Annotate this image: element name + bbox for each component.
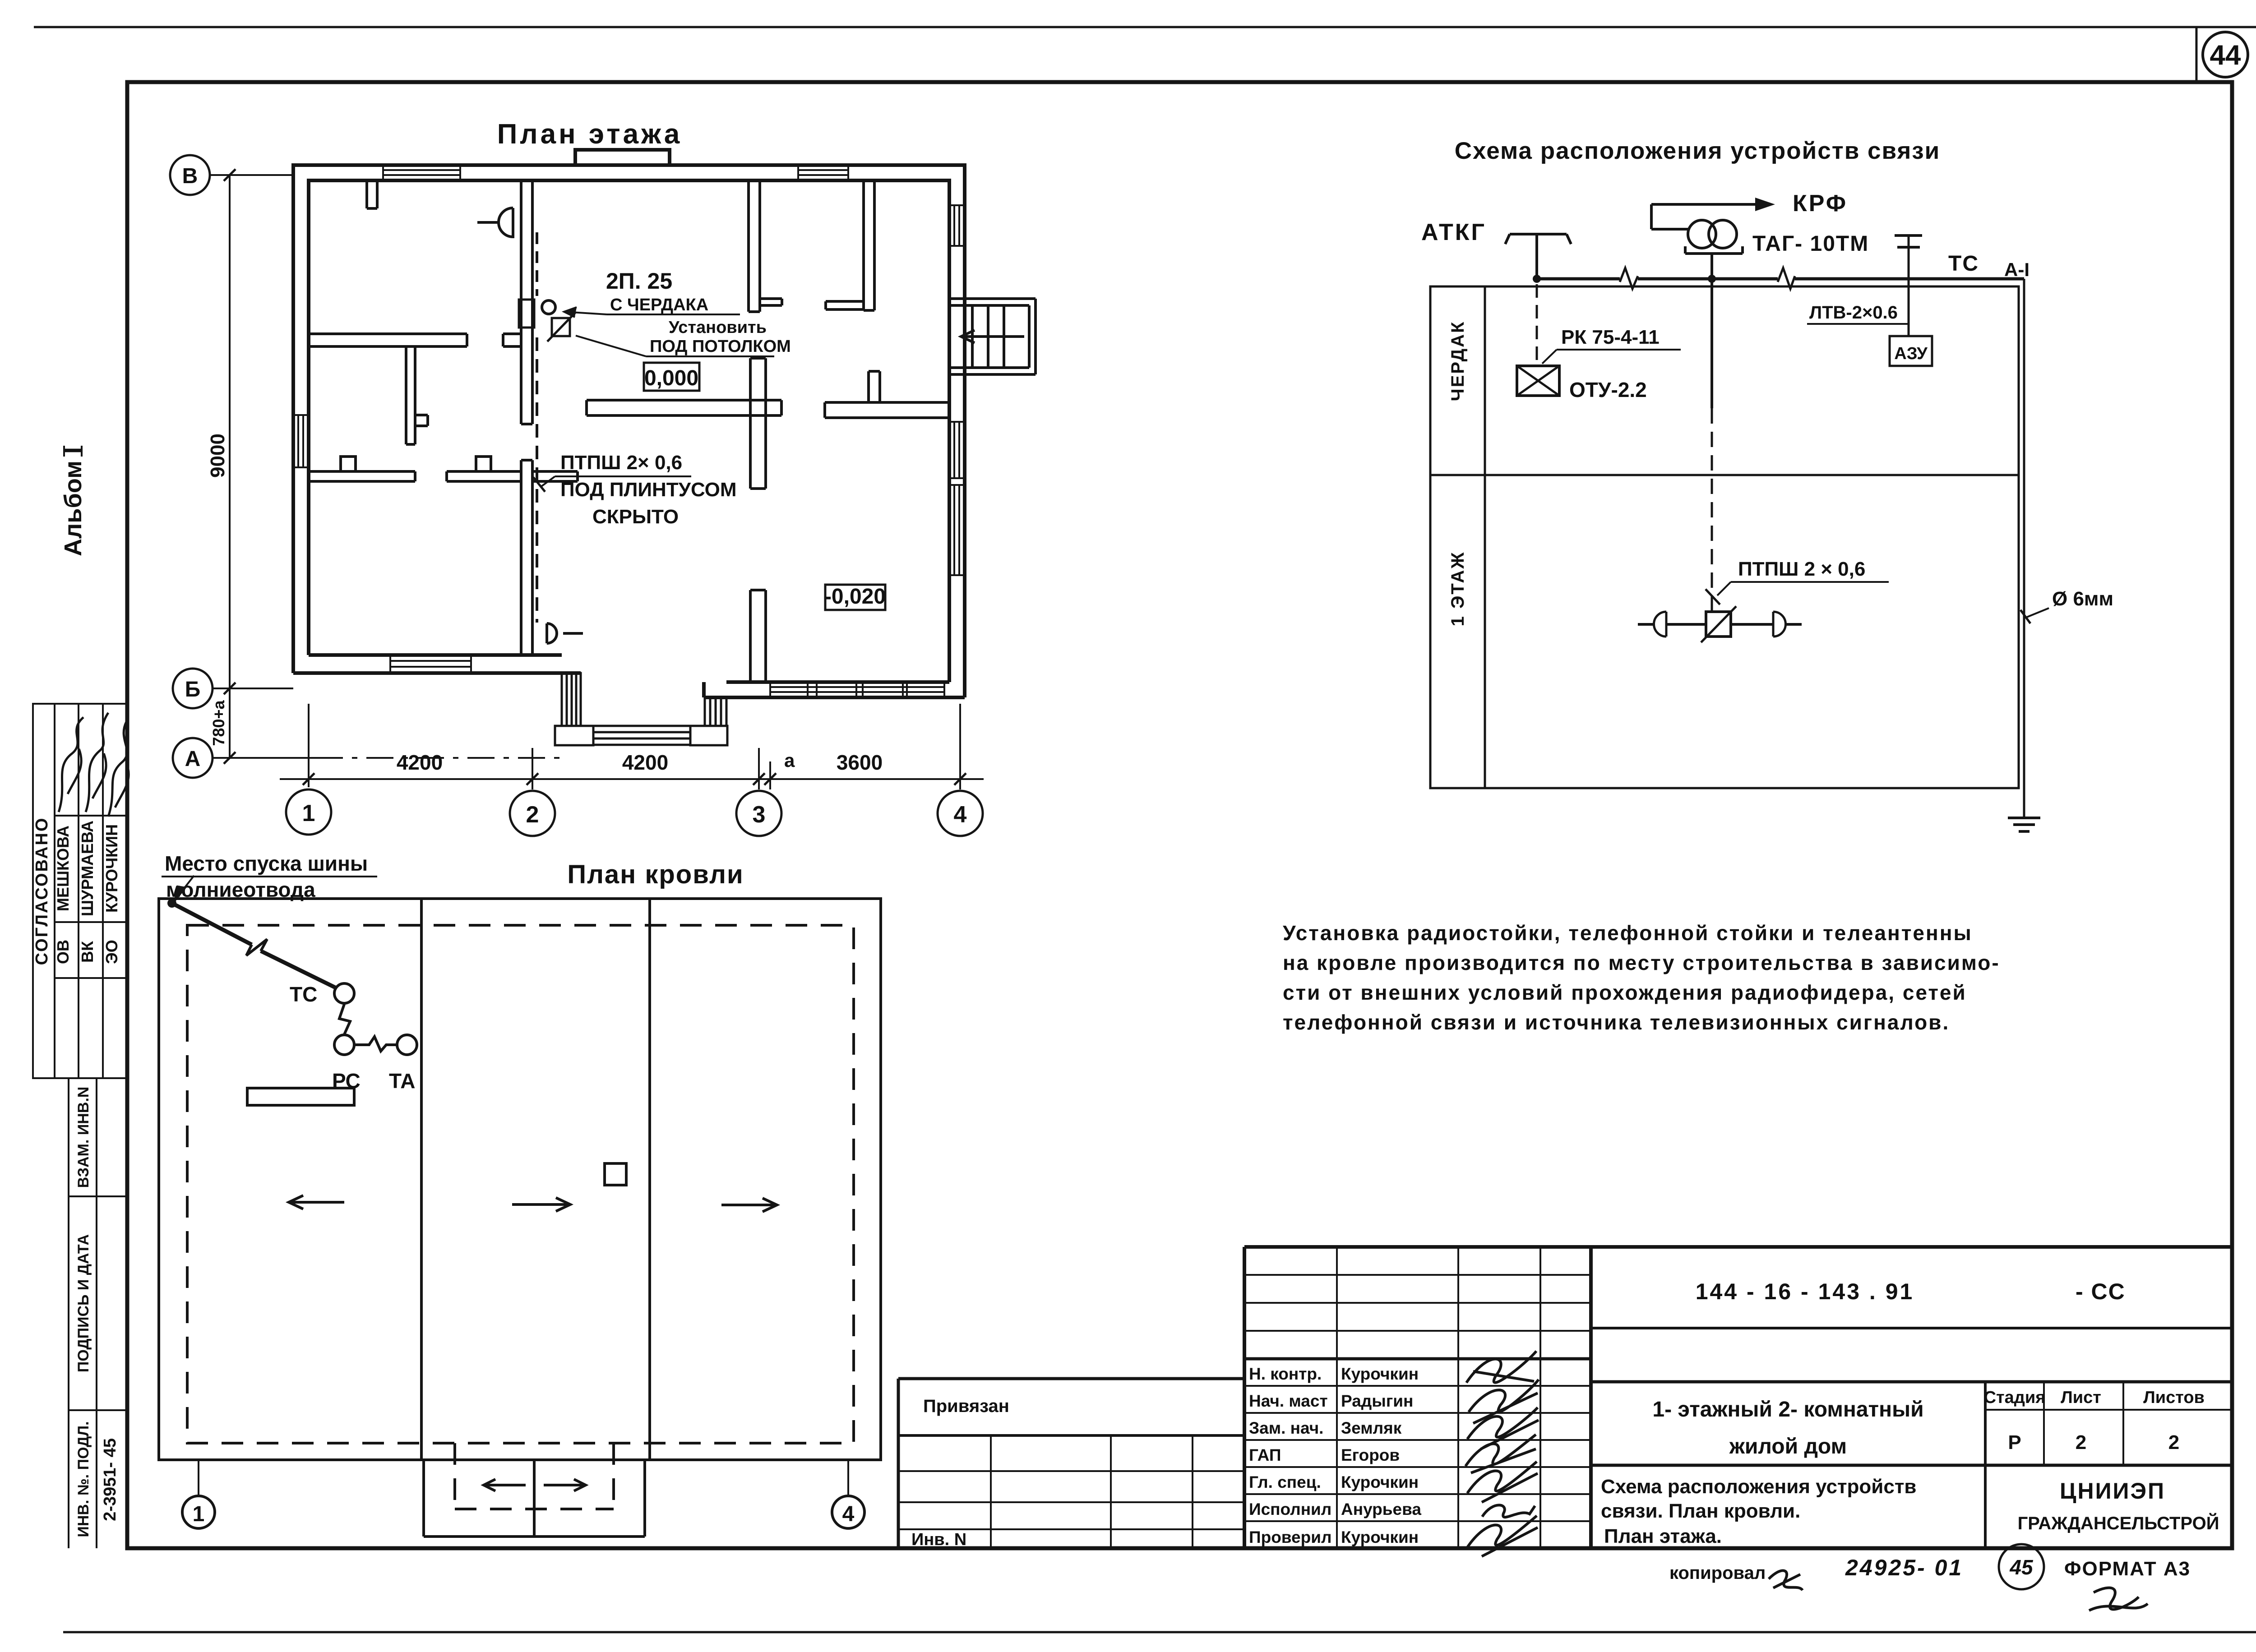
svg-text:ТА: ТА <box>389 1069 415 1093</box>
svg-text:2П. 25: 2П. 25 <box>606 268 672 294</box>
svg-text:ВК: ВК <box>78 941 97 963</box>
svg-text:Схема расположения устройств: Схема расположения устройств <box>1601 1476 1916 1498</box>
svg-text:ПОДПИСЬ И ДАТА: ПОДПИСЬ И ДАТА <box>75 1234 92 1372</box>
svg-text:3600: 3600 <box>837 751 883 774</box>
svg-text:4: 4 <box>954 802 967 828</box>
svg-text:Нач. маст: Нач. маст <box>1249 1392 1328 1410</box>
svg-text:2-3951- 45: 2-3951- 45 <box>101 1438 120 1521</box>
svg-text:ПОД ПОТОЛКОМ: ПОД ПОТОЛКОМ <box>650 337 791 356</box>
svg-text:Курочкин: Курочкин <box>1341 1365 1419 1383</box>
svg-text:45: 45 <box>2009 1555 2034 1579</box>
svg-text:СКРЫТО: СКРЫТО <box>592 506 679 528</box>
svg-text:Исполнил: Исполнил <box>1249 1500 1331 1518</box>
svg-text:ОВ: ОВ <box>54 940 72 964</box>
svg-text:Зам. нач.: Зам. нач. <box>1249 1419 1323 1437</box>
svg-text:4200: 4200 <box>622 751 668 774</box>
svg-text:2: 2 <box>2168 1431 2179 1454</box>
svg-text:РК 75-4-11: РК 75-4-11 <box>1561 326 1660 348</box>
svg-text:44: 44 <box>2210 40 2241 71</box>
svg-text:Схема расположения устройств с: Схема расположения устройств связи <box>1455 138 1940 164</box>
svg-text:на кровле производится по мест: на кровле производится по месту строител… <box>1283 951 2000 974</box>
svg-text:3: 3 <box>753 802 766 828</box>
svg-text:АЗУ: АЗУ <box>1894 344 1928 363</box>
svg-text:Курочкин: Курочкин <box>1341 1528 1419 1546</box>
svg-text:сти от внешних условий прохожд: сти от внешних условий прохождения радио… <box>1283 981 1967 1004</box>
svg-text:1- этажный 2- комнатный: 1- этажный 2- комнатный <box>1652 1398 1923 1421</box>
svg-text:Земляк: Земляк <box>1341 1419 1402 1437</box>
svg-text:2: 2 <box>2076 1431 2086 1454</box>
svg-text:Лист: Лист <box>2061 1388 2101 1407</box>
svg-text:Н. контр.: Н. контр. <box>1249 1365 1322 1383</box>
svg-text:ВЗАМ. ИНВ.N: ВЗАМ. ИНВ.N <box>75 1087 92 1188</box>
svg-text:копировал: копировал <box>1669 1563 1766 1583</box>
svg-text:ГРАЖДАНСЕЛЬСТРОЙ: ГРАЖДАНСЕЛЬСТРОЙ <box>2018 1513 2219 1533</box>
svg-text:1: 1 <box>193 1502 205 1526</box>
svg-text:жилой дом: жилой дом <box>1729 1435 1847 1458</box>
svg-text:ЦНИИЭП: ЦНИИЭП <box>2060 1478 2165 1504</box>
svg-text:ШУРМАЕВА: ШУРМАЕВА <box>78 821 97 916</box>
svg-text:4: 4 <box>842 1502 855 1526</box>
svg-text:1 ЭТАЖ: 1 ЭТАЖ <box>1448 551 1468 627</box>
svg-text:ЧЕРДАК: ЧЕРДАК <box>1448 321 1468 401</box>
svg-text:С ЧЕРДАКА: С ЧЕРДАКА <box>610 295 708 314</box>
svg-text:Листов: Листов <box>2143 1388 2205 1407</box>
svg-text:ОТУ-2.2: ОТУ-2.2 <box>1569 378 1647 401</box>
svg-text:24925- 01: 24925- 01 <box>1845 1555 1963 1580</box>
svg-text:9000: 9000 <box>207 434 229 478</box>
svg-text:ПТПШ 2 × 0,6: ПТПШ 2 × 0,6 <box>1738 558 1865 580</box>
svg-text:ЛТВ-2×0.6: ЛТВ-2×0.6 <box>1809 303 1898 323</box>
svg-text:Стадия: Стадия <box>1984 1388 2046 1407</box>
svg-text:ТС: ТС <box>290 983 317 1006</box>
svg-text:Курочкин: Курочкин <box>1341 1473 1419 1491</box>
svg-text:4200: 4200 <box>397 751 443 774</box>
svg-text:- СС: - СС <box>2076 1279 2126 1304</box>
svg-text:Привязан: Привязан <box>923 1396 1009 1416</box>
svg-text:МЕШКОВА: МЕШКОВА <box>54 826 72 911</box>
svg-text:1: 1 <box>302 800 315 826</box>
svg-text:АТКГ: АТКГ <box>1421 219 1486 245</box>
svg-text:связи. План кровли.: связи. План кровли. <box>1601 1500 1800 1522</box>
svg-text:2: 2 <box>526 802 539 828</box>
svg-text:РС: РС <box>332 1069 361 1093</box>
svg-text:Б: Б <box>185 678 201 701</box>
svg-text:Место спуска шины: Место спуска шины <box>165 852 368 875</box>
svg-text:Установить: Установить <box>669 318 767 337</box>
svg-text:План этажа.: План этажа. <box>1604 1525 1722 1547</box>
svg-text:-0,020: -0,020 <box>824 585 886 609</box>
svg-text:СОГЛАСОВАНО: СОГЛАСОВАНО <box>32 817 51 965</box>
svg-text:Ø 6мм: Ø 6мм <box>2052 588 2113 610</box>
svg-text:Инв. N: Инв. N <box>911 1530 966 1549</box>
svg-text:ТС: ТС <box>1948 252 1979 276</box>
svg-text:144 - 16 - 143 . 91: 144 - 16 - 143 . 91 <box>1696 1279 1914 1304</box>
svg-text:телефонной связи и источника т: телефонной связи и источника телевизионн… <box>1283 1011 1950 1034</box>
svg-text:ЭО: ЭО <box>102 940 121 964</box>
svg-text:Радыгин: Радыгин <box>1341 1392 1413 1410</box>
svg-text:Егоров: Егоров <box>1341 1446 1400 1464</box>
svg-text:План кровли: План кровли <box>567 860 744 889</box>
svg-text:ГАП: ГАП <box>1249 1446 1281 1464</box>
svg-text:КРФ: КРФ <box>1793 190 1848 217</box>
svg-text:Установка радиостойки, телефон: Установка радиостойки, телефонной стойки… <box>1283 921 1973 945</box>
svg-text:0,000: 0,000 <box>644 366 698 390</box>
svg-text:ПОД ПЛИНТУСОМ: ПОД ПЛИНТУСОМ <box>560 479 737 501</box>
svg-text:ТАГ- 10ТМ: ТАГ- 10ТМ <box>1752 232 1869 256</box>
svg-text:780+а: 780+а <box>209 700 228 746</box>
svg-text:А: А <box>185 747 201 771</box>
svg-text:ИНВ. №. ПОДЛ.: ИНВ. №. ПОДЛ. <box>75 1421 92 1537</box>
svg-text:Р: Р <box>2008 1431 2021 1454</box>
svg-text:В: В <box>182 164 198 188</box>
svg-text:План этажа: План этажа <box>497 119 683 150</box>
svg-text:ПТПШ 2× 0,6: ПТПШ 2× 0,6 <box>560 452 682 474</box>
svg-text:а: а <box>784 750 795 771</box>
svg-text:Анурьева: Анурьева <box>1341 1500 1421 1518</box>
svg-text:Проверил: Проверил <box>1249 1528 1331 1546</box>
svg-text:Гл. спец.: Гл. спец. <box>1249 1473 1321 1491</box>
svg-text:ФОРМАТ А3: ФОРМАТ А3 <box>2064 1558 2191 1580</box>
svg-text:Альбом I: Альбом I <box>60 447 87 556</box>
svg-text:КУРОЧКИН: КУРОЧКИН <box>102 824 121 913</box>
svg-text:А-I: А-I <box>2004 259 2029 280</box>
